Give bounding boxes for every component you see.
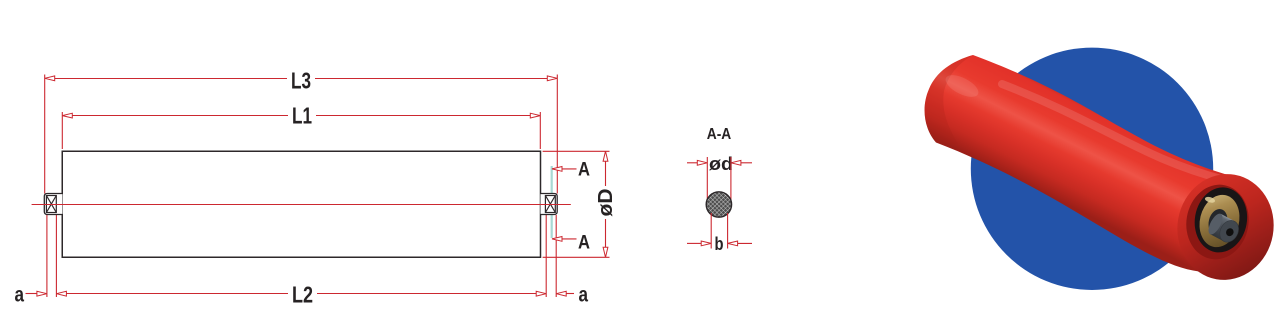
left bearing housing bbox=[44, 194, 62, 215]
svg-text:A: A bbox=[578, 159, 590, 181]
dimension L1 bbox=[62, 103, 540, 150]
b extension lines bbox=[710, 213, 712, 249]
section arrow A bottom bbox=[552, 232, 590, 254]
dimension phi-d bbox=[687, 154, 752, 174]
photo: bearing inner dark bbox=[1206, 207, 1230, 237]
svg-text:b: b bbox=[715, 234, 724, 254]
photo: bearing recess shadow bbox=[1180, 180, 1254, 265]
tube body bbox=[62, 151, 540, 257]
photo: brass highlight bbox=[1204, 196, 1215, 204]
dimension b bbox=[687, 234, 752, 254]
centerline bbox=[32, 204, 571, 206]
svg-text:A-A: A-A bbox=[707, 126, 732, 143]
section arrow A top bbox=[552, 159, 590, 181]
photo: blue disc bbox=[971, 48, 1213, 290]
svg-text:a: a bbox=[579, 284, 589, 307]
svg-text:A: A bbox=[578, 232, 590, 254]
a extension lines right bbox=[545, 215, 547, 297]
phi-d extension lines bbox=[706, 157, 708, 205]
photo: cap edge shading bbox=[925, 55, 973, 144]
right bearing housing bbox=[541, 194, 558, 215]
dimension a left bbox=[15, 284, 47, 307]
svg-text:L3: L3 bbox=[291, 68, 311, 94]
centerline over bearings bbox=[32, 204, 571, 206]
photo: bearing brass ring bbox=[1194, 191, 1245, 252]
svg-text:ød: ød bbox=[709, 154, 733, 174]
dimension a right bbox=[556, 284, 588, 307]
svg-text:L2: L2 bbox=[292, 282, 313, 308]
dimension phiD bbox=[543, 151, 617, 257]
L3 extension line right bbox=[556, 75, 558, 194]
svg-text:a: a bbox=[15, 284, 25, 307]
svg-text:øD: øD bbox=[595, 189, 617, 217]
photo: shaft stub bbox=[1206, 211, 1243, 245]
photo: roller end face bbox=[1169, 166, 1282, 287]
shaft section circle bbox=[706, 192, 731, 217]
dimension L2 bbox=[56, 282, 546, 308]
a extension lines left bbox=[46, 215, 48, 297]
photo: bearing outer black ring bbox=[1190, 183, 1253, 256]
photo: roller body bbox=[925, 55, 1266, 275]
svg-text:L1: L1 bbox=[292, 103, 312, 129]
left bearing cross box bbox=[46, 196, 56, 213]
section line A-A (cyan) bbox=[551, 166, 553, 238]
L3 extension line left bbox=[44, 75, 46, 194]
photo: body sheen bbox=[1002, 84, 1225, 180]
dimension L3 bbox=[45, 68, 558, 94]
right bearing cross box bbox=[545, 196, 555, 213]
